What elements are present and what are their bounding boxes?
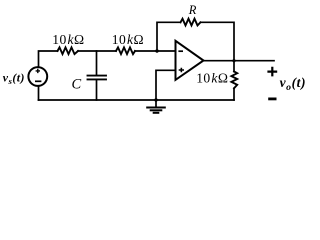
resistor R feedback zigzag	[181, 19, 201, 26]
ground bar 1	[147, 107, 165, 109]
source VS plus mark	[36, 69, 40, 73]
op-amp U1 triangle	[176, 41, 204, 80]
capacitor C top plate	[88, 75, 107, 77]
resistor R2 10k zigzag	[116, 47, 135, 54]
wire source bottom lead	[38, 86, 40, 100]
capacitor C bottom lead	[96, 80, 98, 100]
source VS minus mark	[35, 80, 41, 82]
svg-text:C: C	[72, 77, 82, 93]
resistor 10k output bottom lead	[233, 88, 235, 100]
wire feedback top right + down to output node	[201, 22, 235, 60]
node output junction dot	[232, 59, 235, 62]
resistor R1 10k zigzag	[58, 47, 79, 54]
svg-text:vo(t): vo(t)	[280, 75, 306, 93]
node A junction dot (feedback tap)	[155, 49, 158, 52]
wire top segment C (R2 to op-amp inverting input)	[135, 50, 176, 52]
resistor 10k output zigzag	[231, 72, 237, 89]
node ground junction dot	[154, 98, 157, 101]
svg-text:10kΩ: 10kΩ	[196, 71, 228, 86]
wire op-amp output to terminal	[204, 60, 275, 62]
ground bar 3	[154, 112, 159, 114]
output terminal minus mark	[268, 98, 276, 101]
capacitor C top lead	[96, 51, 98, 75]
svg-text:10kΩ: 10kΩ	[112, 32, 144, 47]
ground stub	[155, 100, 157, 107]
resistor 10k output top lead	[233, 61, 235, 72]
wire top segment A (source top to R1)	[39, 51, 58, 67]
ground bar 2	[151, 109, 162, 111]
svg-text:vs(t): vs(t)	[3, 70, 25, 86]
output terminal plus mark	[267, 67, 277, 77]
wire op-amp noninverting input	[156, 70, 176, 100]
wire bottom rail	[39, 99, 235, 101]
capacitor C bottom plate	[88, 78, 107, 80]
wire top segment B (R1 to R2)	[78, 50, 116, 52]
svg-text:R: R	[188, 3, 197, 17]
svg-text:10kΩ: 10kΩ	[52, 32, 84, 47]
wire feedback tap up	[157, 22, 181, 51]
source VS circle	[28, 67, 47, 86]
op-amp inverting minus mark	[178, 50, 183, 52]
op-amp noninverting plus mark	[179, 68, 184, 72]
